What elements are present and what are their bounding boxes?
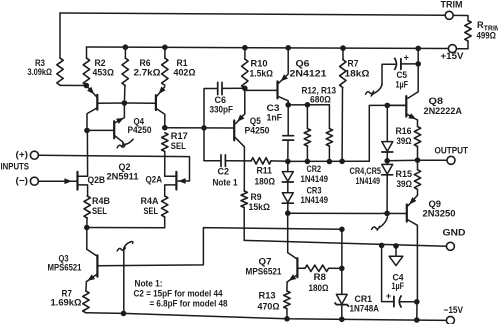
svg-text:MPS6521: MPS6521 <box>48 262 82 272</box>
transistor Q1A emitter wire <box>86 86 96 97</box>
resistor R4A <box>162 196 168 217</box>
svg-text:TRIM: TRIM <box>441 0 463 10</box>
wire (-) input to gate <box>38 180 76 182</box>
svg-text:(−): (−) <box>16 176 29 186</box>
svg-text:2N2222A: 2N2222A <box>424 106 463 116</box>
node CR1 bottom rail <box>339 317 345 323</box>
label R8 value <box>309 283 329 293</box>
label R13 value <box>258 301 280 311</box>
diode CR3 <box>282 193 293 203</box>
transistor Q1A collector wire <box>87 108 97 130</box>
label RTRIM <box>477 20 498 32</box>
wire C5 thermal hook <box>366 85 382 96</box>
label C5 value <box>396 79 409 89</box>
wire Q3 collector up <box>86 228 88 250</box>
label R7 (18k) <box>348 59 359 69</box>
node R1 top rail junction <box>162 45 168 51</box>
svg-text:402Ω: 402Ω <box>174 68 196 78</box>
label R7 (1.69k) <box>62 289 73 299</box>
wire R16 bottom <box>417 147 419 161</box>
wire CR4 anode leg <box>386 105 388 141</box>
node R3/R2/emitter junction <box>84 83 90 89</box>
label Q5 type <box>245 126 270 136</box>
label R7 value <box>51 298 82 308</box>
label R1 <box>177 58 188 68</box>
node CR4/CR5 output junction <box>384 158 390 164</box>
resistor RTRIM <box>465 21 471 42</box>
svg-text:R11: R11 <box>257 165 273 175</box>
terminal +15V <box>448 45 456 53</box>
transistor Q7 emitter arrow <box>289 274 297 281</box>
diode CR1 (zener) <box>335 294 349 306</box>
resistor R9 <box>241 191 247 208</box>
label CR4 CR5 type <box>356 176 381 186</box>
svg-text:1µF: 1µF <box>396 79 409 89</box>
wire R1 top <box>164 47 166 58</box>
capacitor C4 right leg <box>400 301 417 303</box>
transistor Q4 collector hook <box>117 139 133 148</box>
svg-text:Q2B: Q2B <box>88 175 106 185</box>
wire R11 right <box>271 160 288 162</box>
diode CR5 <box>382 164 393 174</box>
wire R7 top <box>342 48 344 59</box>
svg-text:INPUTS: INPUTS <box>1 162 30 172</box>
transistor Q6 collector diag <box>278 96 288 105</box>
node Q4 base / Q1A collector junction <box>84 128 90 134</box>
label R3 <box>35 58 45 68</box>
jfet Q2B bar <box>76 172 78 190</box>
node Q9 collector rail junction <box>414 317 420 323</box>
ground symbol <box>389 256 403 265</box>
capacitor C5 plus <box>404 53 409 63</box>
label Q5 <box>250 116 261 126</box>
label Q3 type <box>48 262 82 272</box>
svg-text:R7: R7 <box>348 59 359 69</box>
svg-text:3.09kΩ: 3.09kΩ <box>28 67 53 77</box>
node Q9 base junction <box>384 211 390 217</box>
node R10/C6/Q5 emitter junction <box>242 86 248 92</box>
svg-text:R8: R8 <box>314 272 327 282</box>
svg-text:R10: R10 <box>251 59 268 69</box>
label R6 <box>140 58 151 68</box>
node R7 top rail junction <box>340 45 346 51</box>
wire Q9 collector to rail <box>416 302 418 320</box>
terminal OUTPUT <box>447 156 455 164</box>
wire Q7 emitter to R13 <box>286 282 288 291</box>
resistor R4B <box>84 196 90 218</box>
wire Q3 emitter to R7 <box>85 282 88 291</box>
node R8/CR1 junction <box>339 266 345 272</box>
resistor R17 <box>162 133 168 152</box>
capacitor C4 plates <box>394 295 402 307</box>
transistor Q1B emitter arrow <box>159 87 166 95</box>
wire R13 bottom <box>286 309 288 319</box>
svg-text:SEL: SEL <box>171 141 186 151</box>
label R2 value <box>93 68 115 78</box>
label R7 value <box>345 69 370 79</box>
transistor Q4 base wire <box>87 129 114 131</box>
svg-text:R9: R9 <box>251 192 262 202</box>
capacitor C5 left leg <box>382 64 395 84</box>
svg-text:1N748A: 1N748A <box>350 304 380 314</box>
node bias rail / diode chain top <box>285 159 291 165</box>
svg-text:CR4,CR5: CR4,CR5 <box>350 166 382 176</box>
wire R9 bottom to gnd line <box>243 208 245 241</box>
svg-text:1nF: 1nF <box>267 113 283 123</box>
label R15 value <box>397 179 413 189</box>
svg-text:453Ω: 453Ω <box>93 68 115 78</box>
wire CR1 top <box>341 229 343 294</box>
transistor Q1B emitter wire <box>156 87 164 97</box>
svg-text:+: + <box>386 291 391 301</box>
transistor Q8 base wire <box>387 104 405 106</box>
wire Q4-Q3 jump hook <box>117 242 133 251</box>
capacitor C4 left leg <box>382 245 394 301</box>
svg-text:P4250: P4250 <box>128 125 152 135</box>
node Q6 emitter rail junction <box>285 45 291 51</box>
label note line2 <box>134 289 224 299</box>
capacitor C2 plates <box>221 155 225 167</box>
label R11 <box>257 165 273 175</box>
label Q2B <box>88 175 106 185</box>
label C2 note <box>213 178 238 188</box>
wire R17 bottom to Q2A drain <box>164 152 166 177</box>
transistor Q1A emitter arrow <box>87 87 94 94</box>
label CR2 <box>307 164 322 174</box>
wire R8 right <box>329 267 342 269</box>
node Q8 collector rail junction <box>415 46 421 52</box>
svg-text:39Ω: 39Ω <box>397 179 413 189</box>
node bias/R7 vertical junction <box>339 159 345 165</box>
svg-text:R13: R13 <box>259 291 276 301</box>
svg-text:+15V: +15V <box>441 51 465 61</box>
terminal (-) input <box>30 177 38 185</box>
label Q8 <box>429 96 444 106</box>
wire CR5 cathode down <box>386 175 388 214</box>
label R4B <box>92 196 110 206</box>
transistor Q1A base wire <box>98 102 124 104</box>
node CR3 bottom junction <box>285 210 291 216</box>
label R16 value <box>397 136 412 146</box>
transistor Q6 bar <box>276 81 278 98</box>
resistor R1 <box>162 58 168 85</box>
transistor Q6 base wire <box>245 89 277 91</box>
svg-text:Q8: Q8 <box>429 96 444 106</box>
transistor Q5 base wire <box>204 127 233 129</box>
svg-text:1.69kΩ: 1.69kΩ <box>51 298 82 308</box>
label Q7 <box>259 257 272 267</box>
wire Q5 base down leg <box>203 128 205 161</box>
svg-text:1.5kΩ: 1.5kΩ <box>250 69 274 79</box>
transistor Q7 bar <box>296 258 298 277</box>
resistor R15 <box>414 170 420 190</box>
node C6/Q5 base junction <box>201 125 207 131</box>
svg-text:CR2: CR2 <box>307 164 322 174</box>
svg-text:−15V: −15V <box>444 305 464 315</box>
label Q3 <box>59 253 69 263</box>
node output junction <box>415 157 421 163</box>
wire Q8 emitter to R16 <box>417 120 419 127</box>
transistor Q8 collector diag <box>408 92 418 98</box>
svg-text:+: + <box>404 53 409 63</box>
svg-text:2N5911: 2N5911 <box>107 171 139 181</box>
transistor Q7 emitter diag <box>287 275 297 282</box>
svg-text:R4B: R4B <box>92 196 110 206</box>
svg-text:C2: C2 <box>218 167 230 177</box>
svg-text:499Ω: 499Ω <box>477 31 497 41</box>
transistor Q4 emitter arrow <box>116 118 124 124</box>
label R11 value <box>255 176 276 186</box>
svg-text:P4250: P4250 <box>245 126 270 136</box>
jfet Q2B drain stub <box>78 175 87 177</box>
label Q6 <box>296 59 310 69</box>
capacitor C3 top leg <box>287 105 289 135</box>
wire Q8 collector vertical <box>417 48 419 91</box>
label Q2 type <box>107 171 139 181</box>
wire CR2-CR3 <box>287 182 289 193</box>
label (-) <box>16 176 29 186</box>
svg-text:180Ω: 180Ω <box>255 176 276 186</box>
node R13 bottom rail <box>284 316 290 322</box>
label Q4 <box>134 117 145 127</box>
terminal GND <box>446 242 454 250</box>
wire CR3 node down to Q7 collector <box>287 213 289 252</box>
wire R15 to Q9 emitter <box>417 189 419 195</box>
label C3 <box>267 103 280 113</box>
svg-text:2.7kΩ: 2.7kΩ <box>134 68 161 78</box>
svg-text:CR3: CR3 <box>307 185 322 195</box>
svg-text:Q7: Q7 <box>259 257 272 267</box>
label INPUTS <box>1 162 30 172</box>
label R17 <box>171 131 188 141</box>
svg-text:CR1: CR1 <box>355 294 373 304</box>
transistor Q5 emitter arrow <box>237 115 244 122</box>
wire output to terminal <box>418 159 448 161</box>
wire Q5 emitter vertical <box>244 88 246 114</box>
wire C6 left leg <box>204 89 218 128</box>
transistor Q1B collector wire <box>156 109 164 128</box>
svg-text:SEL: SEL <box>92 206 107 216</box>
svg-text:680Ω: 680Ω <box>310 95 331 105</box>
transistor Q9 emitter arrow <box>409 197 416 204</box>
label R9 value <box>249 202 271 212</box>
svg-text:2N3250: 2N3250 <box>423 209 456 219</box>
node ground stub <box>393 243 399 249</box>
transistor Q8 emitter diag <box>407 114 418 120</box>
svg-text:= 6.8pF for model 48: = 6.8pF for model 48 <box>150 299 228 309</box>
svg-text:(+): (+) <box>16 150 29 160</box>
svg-text:C2 = 15pF for model 44: C2 = 15pF for model 44 <box>134 289 224 299</box>
label TRIM <box>441 0 463 10</box>
svg-text:470Ω: 470Ω <box>258 301 280 311</box>
label R6 value <box>134 68 161 78</box>
wire CR1 bottom <box>341 305 343 320</box>
jfet Q2A source stub <box>165 185 176 196</box>
resistor R3 <box>57 58 63 85</box>
svg-text:15kΩ: 15kΩ <box>249 202 271 212</box>
wire Q3 base run <box>98 228 342 266</box>
label C4 value <box>392 281 405 291</box>
label (+) <box>16 150 29 160</box>
label CR4 CR5 <box>350 166 382 176</box>
wire C2 left leg <box>204 160 221 162</box>
label Q9 type <box>423 209 456 219</box>
svg-text:1N4149: 1N4149 <box>301 195 329 205</box>
label C4 <box>393 273 405 283</box>
label CR3 type <box>301 195 329 205</box>
transistor Q8 bar <box>405 96 407 116</box>
transistor Q1A bar <box>96 95 98 110</box>
wire C5 right leg <box>401 63 418 65</box>
capacitor C4 plus <box>386 291 391 301</box>
transistor Q3 emitter arrow <box>87 274 95 281</box>
wire R4A bottom run <box>87 217 165 228</box>
wire R2 top corner <box>86 47 88 58</box>
wire bias rail up to Q8 base <box>369 105 405 161</box>
wire R17 node to C6/Q5 node <box>165 127 204 129</box>
wire output node link <box>387 159 417 162</box>
label RTRIM value <box>477 31 497 41</box>
wire -15V bottom rail <box>86 313 447 321</box>
wire 680 pair top rail <box>288 104 329 106</box>
label note line3 <box>150 299 228 309</box>
capacitor C6 plates <box>218 82 222 94</box>
svg-text:SEL: SEL <box>144 206 159 216</box>
node R10 top rail junction <box>242 45 248 51</box>
node R12 bottom <box>305 159 311 165</box>
svg-text:1N4149: 1N4149 <box>301 174 329 184</box>
svg-text:2N4121: 2N4121 <box>290 68 327 78</box>
label R12 R13 <box>302 85 337 95</box>
label R4A SEL <box>144 206 159 216</box>
node Q8 base junction <box>385 103 391 109</box>
jfet Q2A gate arrow <box>178 178 185 184</box>
capacitor C3 bottom leg <box>287 140 289 161</box>
label R16 <box>396 126 412 136</box>
svg-text:R15: R15 <box>396 169 413 179</box>
svg-text:180Ω: 180Ω <box>309 283 329 293</box>
wire +15V rail <box>87 47 449 49</box>
svg-text:Note 1: Note 1 <box>213 178 238 188</box>
label R10 <box>251 59 268 69</box>
svg-text:R16: R16 <box>396 126 412 136</box>
label Q4 type <box>128 125 152 135</box>
transistor Q7 collector diag <box>288 253 297 259</box>
label R17 SEL <box>171 141 186 151</box>
svg-text:Q2A: Q2A <box>146 174 163 184</box>
label CR3 <box>307 185 322 195</box>
transistor Q5 emitter diag <box>236 114 245 124</box>
svg-text:R4A: R4A <box>141 196 159 206</box>
resistor R7 (1.69k) <box>83 291 89 313</box>
wire R6 top <box>124 47 126 58</box>
label R3 value <box>28 67 53 77</box>
terminal TRIM <box>445 11 453 19</box>
jfet Q2A bar <box>175 172 177 190</box>
wire R10 top <box>244 48 246 59</box>
wire R6 bottom to mirror base node <box>123 86 126 104</box>
label Q2 <box>119 162 131 172</box>
node jump bottom rail <box>121 311 127 317</box>
wire RTRIM to +15V rail <box>456 41 468 49</box>
label R15 <box>396 169 413 179</box>
label 680 value <box>310 95 331 105</box>
label note line1 <box>135 279 163 289</box>
wire bias rail right <box>288 160 370 162</box>
wire Q2B drain up <box>86 130 88 176</box>
wire (+) input run <box>38 155 189 181</box>
node C5 right junction <box>415 61 421 67</box>
resistor R11 <box>251 158 271 164</box>
jfet Q2A drain stub <box>165 175 176 177</box>
label C2 <box>218 167 230 177</box>
terminal (+) input <box>30 151 38 159</box>
svg-text:Note 1:: Note 1: <box>135 279 163 289</box>
wire CR2 anode <box>287 161 289 171</box>
label +15V <box>441 51 465 61</box>
wire R15 top <box>417 160 419 170</box>
node R6 top rail junction <box>123 44 129 50</box>
transistor Q3 collector diag <box>87 249 97 256</box>
label R4A <box>141 196 159 206</box>
node mirror base/R6 junction <box>122 100 128 106</box>
wire top rail (TRIM rail) <box>60 13 445 15</box>
node source resistor junction <box>84 225 90 231</box>
capacitor C5 plates <box>394 58 401 70</box>
diode CR2 <box>282 172 293 182</box>
label CR2 type <box>301 174 329 184</box>
jfet Q2B gate arrow <box>64 178 71 184</box>
svg-text:MPS6521: MPS6521 <box>246 266 282 276</box>
diode CR4 <box>382 142 393 152</box>
transistor Q4 collector wire <box>115 136 123 142</box>
resistor R6 <box>122 58 128 86</box>
label R2 <box>95 58 106 68</box>
transistor Q6 emitter arrow <box>281 74 288 81</box>
transistor Q7 base wire (to R8) <box>298 267 305 269</box>
transistor Q4 emitter wire <box>115 103 125 123</box>
jfet Q2B source stub <box>78 185 87 196</box>
label R8 <box>314 272 327 282</box>
wire R7 bottom down to bias rail <box>341 88 343 162</box>
label GND <box>443 228 466 238</box>
resistor R7 (18k) <box>340 60 346 88</box>
transistor Q3 bar <box>96 255 98 276</box>
wire R3 top to rail <box>59 13 61 58</box>
svg-text:Q9: Q9 <box>429 199 442 209</box>
label Q9 <box>429 199 442 209</box>
label C5 <box>397 70 408 80</box>
transistor Q4 bar <box>113 121 115 138</box>
transistor Q9 bar <box>406 205 408 222</box>
label R10 value <box>250 69 274 79</box>
capacitor C3 plates <box>283 136 294 140</box>
label CR1 <box>355 294 373 304</box>
resistor R13 (680) <box>326 105 332 162</box>
label OUTPUT <box>435 146 469 156</box>
wire R4B bottom <box>86 218 88 228</box>
svg-text:OUTPUT: OUTPUT <box>435 146 469 156</box>
wire C2 right to R11 <box>225 160 251 162</box>
label Q2A <box>146 174 163 184</box>
wire Q9 thermal hook <box>372 217 388 230</box>
svg-text:330pF: 330pF <box>210 105 234 115</box>
label CR1 type <box>350 304 380 314</box>
resistor R8 <box>305 265 329 271</box>
wire CR3 cathode to node <box>287 203 289 213</box>
svg-text:R17: R17 <box>171 131 188 141</box>
resistor R16 <box>414 127 420 147</box>
